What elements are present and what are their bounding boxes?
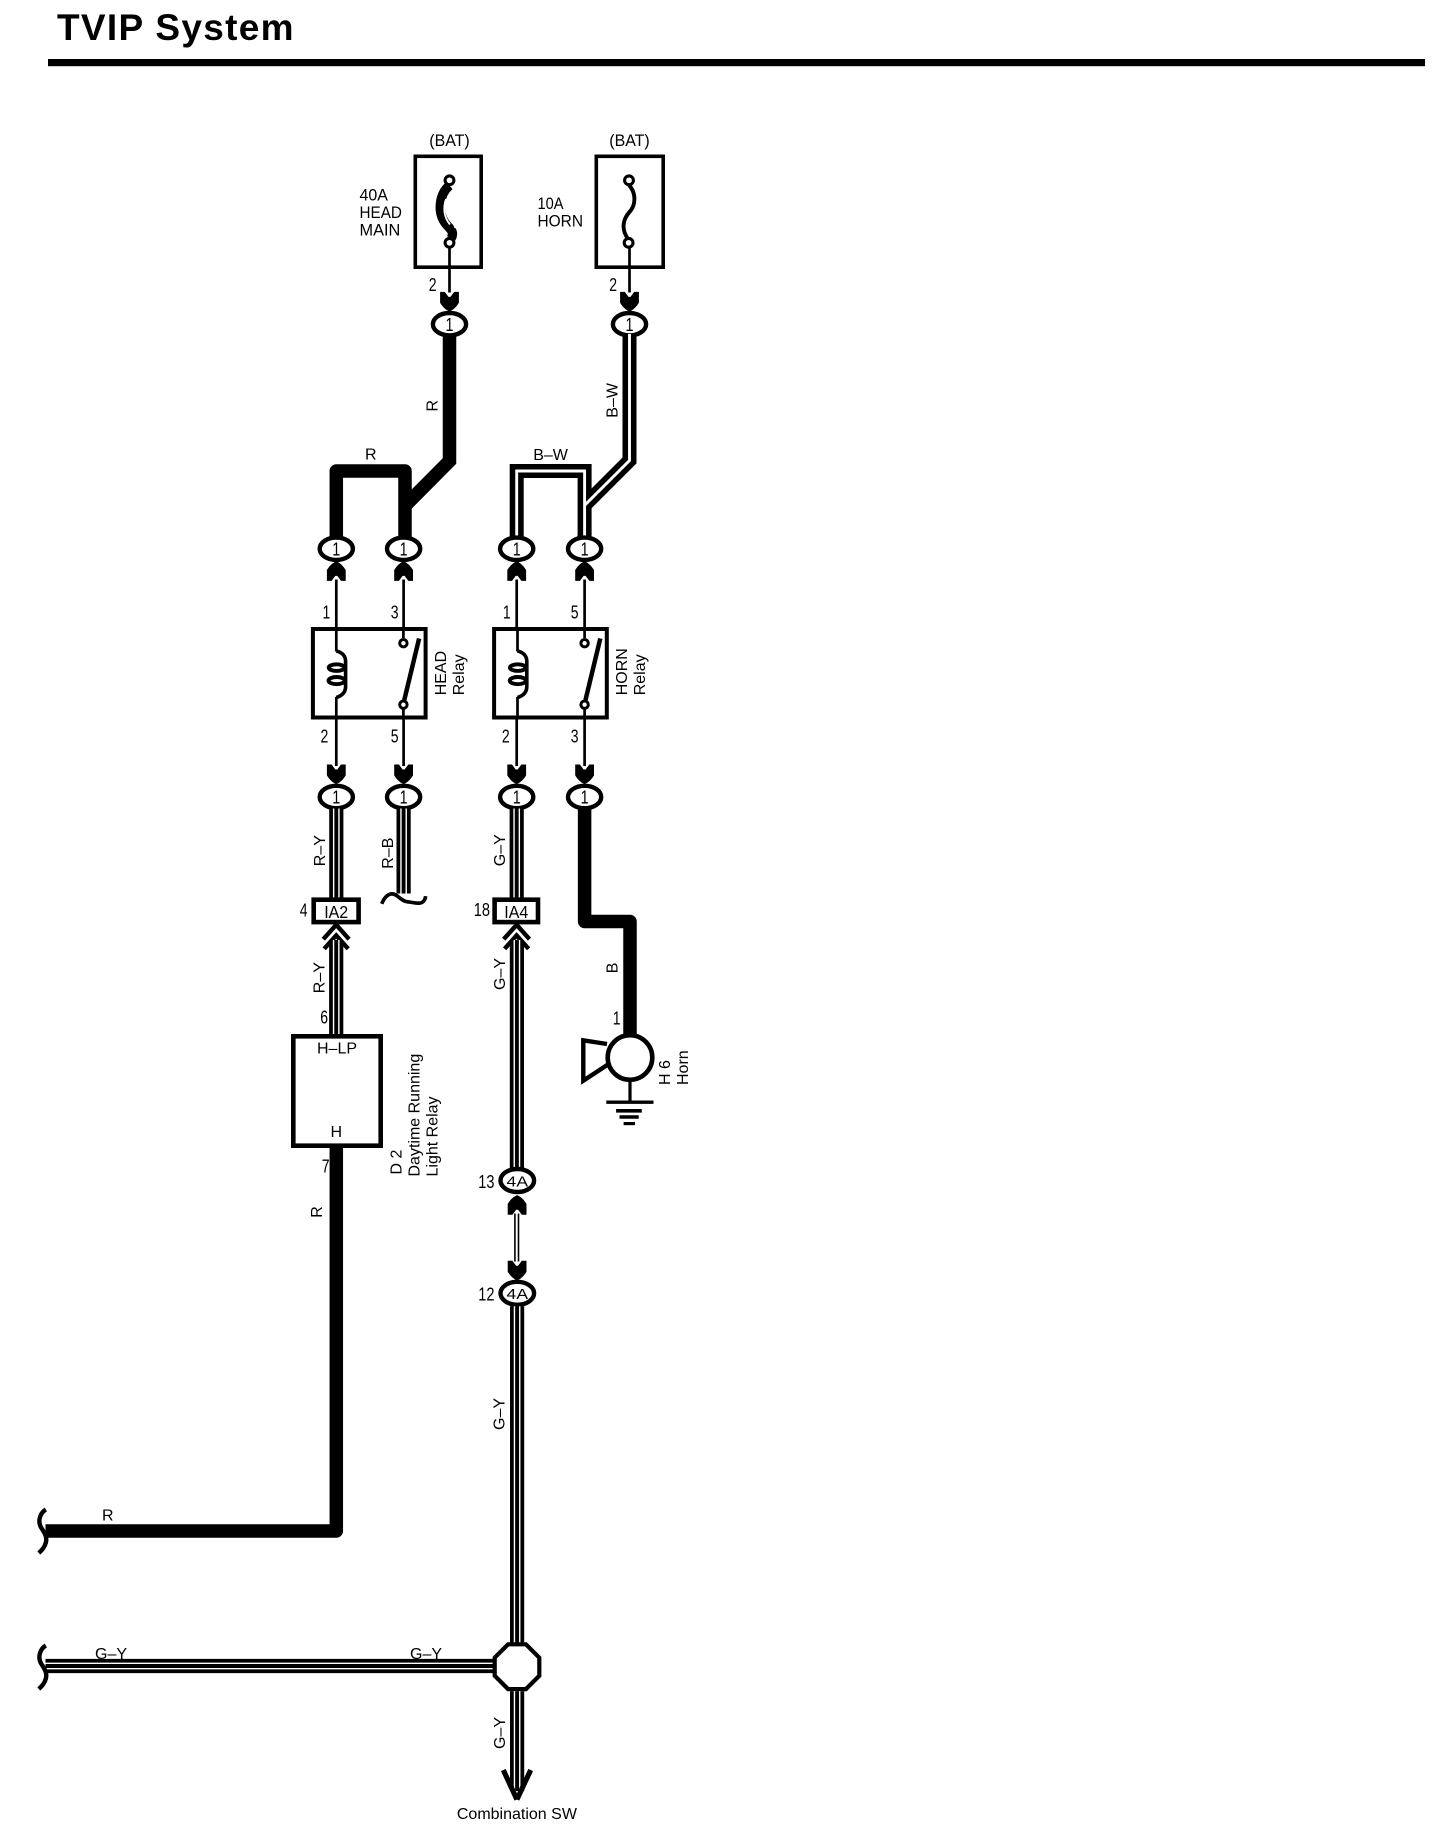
node 1 (HEAD relay pin 1) bbox=[320, 538, 353, 560]
wire + connector arrow from relay pin 2 bbox=[321, 720, 346, 785]
wire G-Y horizontal to harness break bbox=[46, 1646, 494, 1669]
wire R (thick) from F1 node to HEAD relay nodes bbox=[336, 334, 449, 540]
svg-text:Daytime Running: Daytime Running bbox=[407, 1054, 424, 1177]
node 1 (below F2) bbox=[613, 313, 646, 335]
wire R-Y to IA2 bbox=[312, 809, 339, 899]
svg-text:G–Y: G–Y bbox=[95, 1646, 127, 1663]
svg-text:2: 2 bbox=[429, 275, 437, 295]
connector arrow + wire to relay pin 5 bbox=[571, 561, 594, 628]
svg-text:4: 4 bbox=[300, 901, 308, 921]
connector arrow + wire to relay pin 1 bbox=[503, 561, 526, 628]
svg-text:13: 13 bbox=[478, 1172, 494, 1192]
svg-text:1: 1 bbox=[581, 539, 589, 559]
svg-text:6: 6 bbox=[320, 1008, 328, 1028]
svg-text:B–W: B–W bbox=[605, 382, 622, 418]
svg-text:IA4: IA4 bbox=[504, 902, 528, 922]
svg-text:1: 1 bbox=[323, 603, 331, 623]
wire between 4A connectors bbox=[515, 1214, 519, 1262]
svg-text:4A: 4A bbox=[507, 1286, 529, 1303]
junction (octagon splice) bbox=[495, 1644, 540, 1689]
svg-text:G–Y: G–Y bbox=[492, 958, 509, 990]
svg-text:Light Relay: Light Relay bbox=[425, 1096, 442, 1176]
break symbol (G-Y wire) bbox=[39, 1646, 46, 1690]
connector arrow into node 1 (F1) bbox=[440, 292, 459, 312]
svg-text:40A: 40A bbox=[360, 186, 389, 205]
svg-text:H 6: H 6 bbox=[657, 1060, 674, 1085]
svg-text:1: 1 bbox=[332, 539, 340, 559]
fuse F2 10A HORN (BAT) bbox=[538, 131, 664, 267]
relay: HORN Relay bbox=[494, 627, 649, 720]
svg-text:1: 1 bbox=[613, 1009, 621, 1029]
relay D2 Daytime Running Light Relay (H-LP block) bbox=[293, 1036, 441, 1176]
svg-text:2: 2 bbox=[609, 275, 617, 295]
svg-text:R: R bbox=[309, 1206, 326, 1218]
node 1 (HORN relay pin 1) bbox=[500, 538, 533, 560]
svg-text:1: 1 bbox=[513, 788, 521, 808]
svg-text:1: 1 bbox=[503, 603, 511, 623]
svg-text:G–Y: G–Y bbox=[492, 1398, 509, 1430]
node 4A pin 13 bbox=[478, 1169, 534, 1215]
wire G-Y to Combination SW bbox=[492, 1691, 520, 1791]
svg-text:B–W: B–W bbox=[533, 447, 569, 464]
svg-text:5: 5 bbox=[571, 603, 579, 623]
svg-text:1: 1 bbox=[332, 788, 340, 808]
wire R (thick) from D2 pin 7 to harness break bbox=[46, 1148, 337, 1531]
connector arrow + wire to relay pin 3 bbox=[391, 561, 413, 628]
svg-text:Combination SW: Combination SW bbox=[457, 1806, 578, 1823]
node 1 (HEAD relay pin 3) bbox=[387, 538, 420, 560]
svg-text:5: 5 bbox=[391, 727, 399, 747]
relay: HEAD Relay bbox=[313, 627, 468, 720]
node 4A pin 12 bbox=[478, 1261, 534, 1305]
svg-text:H–LP: H–LP bbox=[317, 1040, 357, 1057]
svg-text:1: 1 bbox=[581, 788, 589, 808]
wire R-B (pigtail) bbox=[380, 809, 426, 904]
svg-text:IA2: IA2 bbox=[324, 902, 348, 922]
node 1 (HEAD relay pin 5 out) bbox=[387, 786, 420, 808]
connector IA4 (pin 18) bbox=[474, 900, 538, 949]
svg-text:1: 1 bbox=[446, 315, 454, 335]
svg-text:2: 2 bbox=[502, 727, 510, 747]
svg-text:18: 18 bbox=[474, 900, 490, 920]
title: TVIP System bbox=[48, 7, 1425, 66]
svg-text:3: 3 bbox=[571, 727, 579, 747]
svg-text:R: R bbox=[425, 400, 442, 412]
ground (horn H6) bbox=[606, 1080, 653, 1124]
wire + connector arrow from relay pin 3 bbox=[571, 720, 594, 785]
connector IA2 (pin 4) bbox=[300, 900, 359, 949]
svg-text:B: B bbox=[605, 963, 622, 974]
wire + connector arrow from relay pin 5 bbox=[391, 720, 413, 785]
svg-text:1: 1 bbox=[400, 788, 408, 808]
arrow to Combination SW bbox=[457, 1770, 578, 1823]
svg-text:MAIN: MAIN bbox=[360, 220, 401, 239]
svg-text:R–Y: R–Y bbox=[312, 835, 329, 866]
svg-text:R–B: R–B bbox=[380, 838, 397, 869]
svg-text:G–Y: G–Y bbox=[492, 1717, 509, 1749]
wire G-Y from IA4 to 4A node 13 bbox=[492, 940, 520, 1168]
svg-text:H: H bbox=[331, 1124, 343, 1141]
svg-text:G–Y: G–Y bbox=[492, 834, 509, 866]
node 1 (HEAD relay pin 2 out) bbox=[320, 786, 353, 808]
svg-text:G–Y: G–Y bbox=[410, 1646, 442, 1663]
svg-text:Horn: Horn bbox=[675, 1050, 692, 1085]
wire B-W (double) from F2 node to HORN relay nodes bbox=[517, 334, 630, 540]
svg-text:1: 1 bbox=[400, 539, 408, 559]
svg-text:1: 1 bbox=[513, 539, 521, 559]
node 1 (HORN relay pin 2 out) bbox=[500, 786, 533, 808]
wire R-Y to D2 relay pin 6 bbox=[312, 940, 339, 1034]
connector arrow into node 1 (F2) bbox=[620, 292, 639, 312]
node 1 (below F1) bbox=[433, 313, 466, 335]
break symbol (R wire) bbox=[39, 1510, 46, 1554]
svg-text:HORN: HORN bbox=[538, 212, 584, 231]
wire: fuse F2 pin 2 lead bbox=[609, 247, 629, 295]
wire G-Y from 4A-12 to junction bbox=[492, 1306, 520, 1643]
node 1 (HORN relay pin 5) bbox=[568, 538, 601, 560]
svg-text:1: 1 bbox=[626, 315, 634, 335]
node 1 (HORN relay pin 3 out) bbox=[568, 786, 601, 808]
svg-text:7: 7 bbox=[322, 1157, 330, 1177]
svg-text:R–Y: R–Y bbox=[312, 962, 329, 993]
svg-text:(BAT): (BAT) bbox=[429, 131, 470, 150]
wire B (thick) to horn H6 bbox=[585, 809, 630, 1035]
svg-text:12: 12 bbox=[478, 1285, 494, 1305]
svg-text:TVIP System: TVIP System bbox=[57, 7, 295, 48]
svg-text:HEAD: HEAD bbox=[433, 651, 450, 695]
svg-text:HEAD: HEAD bbox=[360, 203, 402, 222]
svg-text:Relay: Relay bbox=[632, 654, 649, 695]
horn H6 bbox=[583, 1035, 692, 1085]
svg-text:R: R bbox=[102, 1508, 114, 1525]
svg-text:2: 2 bbox=[321, 727, 329, 747]
svg-text:HORN: HORN bbox=[614, 648, 631, 695]
wire: fuse F1 pin 2 lead bbox=[429, 247, 450, 295]
connector arrow + wire to relay pin 1 bbox=[323, 561, 346, 628]
wire G-Y to IA4 bbox=[492, 809, 519, 899]
svg-text:10A: 10A bbox=[538, 194, 565, 213]
svg-text:4A: 4A bbox=[507, 1173, 529, 1190]
svg-text:3: 3 bbox=[391, 603, 399, 623]
svg-text:Relay: Relay bbox=[451, 654, 468, 695]
fuse F1 40A HEAD MAIN (BAT) bbox=[360, 131, 482, 267]
wire + connector arrow from relay pin 2 bbox=[502, 720, 526, 785]
svg-text:D 2: D 2 bbox=[389, 1150, 406, 1175]
svg-text:R: R bbox=[365, 447, 377, 464]
svg-text:(BAT): (BAT) bbox=[609, 131, 650, 150]
